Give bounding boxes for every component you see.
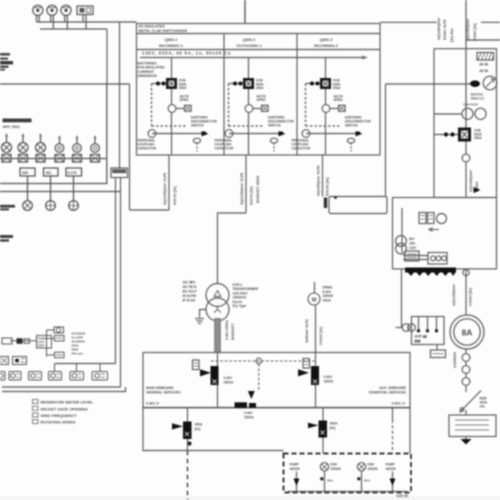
svg-text:SWITCH: SWITCH (268, 123, 281, 127)
breaker QR1 (434, 128, 471, 142)
svg-text:OUTGOING-1: OUTGOING-1 (236, 43, 262, 48)
svg-text:6/10kV XLPE: 6/10kV XLPE (443, 19, 447, 40)
swbd label right (369, 386, 407, 406)
svg-text:ESSENTIAL SERVICES: ESSENTIAL SERVICES (369, 391, 407, 395)
switchboard enclosure (0, 84, 107, 184)
svg-text:200kW: 200kW (331, 467, 341, 471)
left notes label (138, 62, 166, 79)
svg-text:AUX. SWBOARD: AUX. SWBOARD (379, 386, 406, 390)
wire cell3 down (325, 89, 327, 105)
brush symbol (396, 324, 416, 332)
switchgear enclosure (137, 24, 381, 156)
governor unit box (37, 336, 52, 349)
capacitor divider C1 (148, 130, 156, 138)
wire to ngr (465, 410, 467, 415)
svg-text:6/10 kV [3x]: 6/10 kV [3x] (173, 186, 177, 205)
earth switch blade (279, 131, 286, 136)
meter P3 (61, 5, 71, 15)
svg-text:4/6x3: 4/6x3 (323, 298, 331, 302)
svg-text:10s: 10s (480, 405, 486, 409)
svg-text:GENERAL SERVICES: GENERAL SERVICES (146, 391, 181, 395)
wire Q1 to bus (217, 385, 219, 408)
aux box G2 (13, 357, 27, 365)
starter S1 (55, 135, 64, 152)
ct wire 1 (465, 361, 467, 365)
svg-text:3x2500/5A: 3x2500/5A (453, 351, 457, 368)
wire cell3 interlock dashed (306, 84, 340, 127)
svg-text:400kW: 400kW (386, 467, 396, 471)
node cell3 stabs (306, 82, 321, 86)
svg-text:SPRG: SPRG (334, 98, 344, 102)
wire arrester tap (386, 83, 471, 85)
svg-text:QMS-1: QMS-1 (165, 37, 178, 42)
actuator links (2, 338, 37, 344)
breaker 52-2 label (256, 79, 264, 91)
transducer T4 (70, 372, 84, 381)
wire tx tap (218, 213, 247, 284)
wire Q3 dashed down (187, 451, 189, 500)
svg-text:2x(3x185)mm²: 2x(3x185)mm² (452, 283, 456, 306)
arrester label (471, 93, 485, 101)
legend item 3 (33, 413, 78, 418)
interlock node (256, 358, 262, 364)
wire wrap inner (55, 363, 116, 365)
feeder cable 3 (317, 155, 330, 197)
wire bus y22 right (380, 21, 500, 23)
breaker F3 (36, 133, 46, 153)
feeder symbol row (2, 133, 100, 153)
gen cable label (452, 283, 473, 306)
node label left1 (0, 205, 15, 211)
fuse X6 (91, 155, 100, 163)
svg-text:3x(1x300)mm²: 3x(1x300)mm² (469, 169, 473, 192)
wire feeder2 (245, 155, 247, 213)
earth switch wire (306, 133, 356, 135)
svg-text:88 88: 88 88 (480, 69, 489, 73)
svg-text:0.6/1kV [3x]: 0.6/1kV [3x] (319, 327, 323, 345)
wire feeder1 (168, 155, 170, 210)
fuse X3 (36, 155, 45, 163)
wire cell1 interlock dashed (152, 84, 186, 127)
svg-text:10kA cl.2: 10kA cl.2 (471, 96, 485, 100)
wire long vertical C (120, 178, 122, 388)
svg-text:25kA: 25kA (474, 136, 482, 140)
SECTION: motor (305, 84, 387, 366)
breaker 52-3 (320, 78, 331, 89)
device box 52G1 (193, 360, 200, 370)
svg-text:380: 380 (22, 171, 28, 175)
cell 2 circuit (215, 58, 295, 156)
motor label (323, 286, 334, 303)
wire pt drop (401, 269, 403, 328)
wire ess left drop (143, 408, 284, 451)
wire Q2 to bus (315, 385, 317, 408)
coupling capacitor label (138, 139, 157, 151)
svg-text:8A: 8A (462, 328, 473, 338)
wire Q4 down (322, 438, 324, 454)
surge arrester SA1 (470, 76, 497, 90)
wire long vertical A (119, 22, 121, 168)
interlock coil K2 (245, 105, 268, 113)
outgoing box B2 (44, 168, 59, 176)
interlock coil K3 (322, 105, 345, 113)
svg-text:88 88: 88 88 (480, 63, 489, 67)
cubicle box lower (393, 198, 497, 269)
wire meter box stem (83, 15, 86, 30)
wire wrap outer (2, 386, 121, 388)
svg-text:MAIN SWBOARD: MAIN SWBOARD (146, 386, 174, 390)
svg-text:METAL CLAD SWITCHGEAR: METAL CLAD SWITCHGEAR (139, 29, 188, 33)
wire gen down (465, 349, 467, 354)
breaker 52-1 (166, 78, 177, 89)
motor stub (314, 282, 316, 293)
wire gen link (465, 269, 467, 315)
wire meter P2 stem (51, 15, 54, 29)
svg-text:75K: 75K (191, 294, 198, 298)
riser cable label (466, 18, 477, 41)
svg-text:M: M (312, 297, 317, 303)
incoming cable label (437, 17, 454, 42)
svg-text:13kV, 630A, 40 kA, 1s, 50x25 C: 13kV, 630A, 40 kA, 1s, 50x25 Cu (142, 51, 231, 56)
voltage transformer VT1 (462, 103, 486, 120)
svg-text:6/10kV [3x]: 6/10kV [3x] (473, 23, 477, 41)
svg-text:0.4kV 2500A: 0.4kV 2500A (225, 320, 229, 340)
wire LL feeder top (187, 408, 189, 422)
svg-text:ROTATING SPEED: ROTATING SPEED (41, 420, 76, 425)
svg-text:3x(1x150)mm² XLPE: 3x(1x150)mm² XLPE (240, 172, 244, 205)
svg-text:BUSDUCT 1600A: BUSDUCT 1600A (256, 175, 260, 203)
aux relay box R2 (428, 213, 435, 224)
breaker Q4 outgoing (308, 421, 327, 438)
fuse X5 (73, 155, 82, 163)
SECTION: top buses (37, 0, 500, 128)
aux box small (405, 251, 419, 261)
breaker Q3 outgoing (172, 422, 192, 440)
earthing disconnector label (191, 116, 217, 128)
node edge label top (0, 53, 13, 71)
wire meter P1 stem (37, 15, 40, 22)
exciter terminal box (431, 345, 446, 358)
svg-text:GRID FREQUENCY: GRID FREQUENCY (41, 413, 78, 418)
surge counter (270, 138, 277, 151)
svg-text:INCOMING-2: INCOMING-2 (314, 43, 339, 48)
wire motor down (315, 305, 317, 366)
drawout teeth bar (405, 268, 456, 277)
fuse X2 (19, 155, 28, 163)
svg-text:CLF: CLF (191, 290, 197, 294)
fuse X1 (2, 155, 11, 163)
svg-text:C76: C76 (191, 285, 197, 289)
ngr label (480, 397, 488, 409)
svg-text:CAPACITOR: CAPACITOR (138, 146, 157, 150)
breaker Q2 incomer (298, 366, 319, 385)
svg-text:SWITCH: SWITCH (345, 123, 358, 127)
ground electrode (461, 437, 472, 445)
switchgear title (139, 25, 188, 33)
wire mcc bus (288, 491, 407, 493)
surge counter (193, 138, 200, 151)
avr text blob (415, 335, 427, 343)
wire gov ladder (47, 330, 55, 357)
earthing disconnector label (345, 116, 371, 128)
SECTION: left switchboard boxA (0, 53, 130, 242)
breaker Q1 incomer (200, 366, 219, 385)
svg-text:3x(1x95)mm² XLPE: 3x(1x95)mm² XLPE (317, 165, 321, 196)
breaker 52-2 (243, 78, 254, 89)
cell 3 circuit (292, 58, 372, 156)
busduct label (225, 320, 235, 340)
coupling capacitor label (215, 139, 234, 151)
legend item 4 (33, 420, 76, 425)
svg-text:30m: 30m (364, 479, 370, 483)
busduct secondary (215, 319, 221, 353)
cable label feeder3 (317, 165, 330, 196)
main lv bus (143, 407, 410, 409)
bus tie label (244, 411, 254, 419)
transducer T1 (9, 372, 21, 381)
interlock dashed loop (211, 361, 315, 391)
arrow left (429, 228, 440, 232)
wire corner drop (129, 84, 131, 210)
bus tie breaker QT (235, 402, 257, 408)
svg-text:INCOMING-1: INCOMING-1 (159, 43, 184, 48)
svg-text:RESERVOIR WATER LEVEL: RESERVOIR WATER LEVEL (41, 400, 94, 405)
load circle L3 (69, 201, 79, 211)
mcc feeder 3 (357, 463, 378, 492)
earth switch blade (202, 131, 209, 136)
wire cell1 stem (171, 58, 173, 79)
cell divider 1 (223, 34, 225, 156)
ct wire 2 (465, 373, 467, 377)
wire cell1 down (171, 89, 173, 105)
switchboard title (3, 119, 32, 123)
svg-text:3x95mm² XLPE: 3x95mm² XLPE (305, 318, 309, 343)
earth switch wire (229, 133, 279, 135)
coil label (334, 94, 344, 102)
starter S3 (91, 135, 100, 152)
wire interlock drop (258, 364, 260, 391)
svg-text:30m: 30m (327, 479, 333, 483)
fuse row (0, 155, 106, 163)
meter P1 (33, 5, 43, 15)
transducer T3 (49, 372, 62, 381)
cable label feeder2 (240, 172, 260, 205)
surge counter (347, 138, 354, 151)
coupling capacitor label (292, 139, 311, 151)
wire lower bus (0, 191, 121, 193)
svg-text:IP0: IP0 (191, 281, 196, 285)
transducer T0 (0, 372, 5, 381)
SECTION: legend (33, 400, 94, 425)
breaker Q3 label (195, 423, 204, 431)
wire aux feeder stub (392, 408, 394, 454)
13kV bus (140, 56, 368, 60)
wire cell2 stem (248, 58, 250, 79)
wire drop D1 (27, 176, 29, 201)
svg-text:[3x]: [3x] (330, 426, 336, 430)
motor M1 (308, 293, 320, 305)
wire boxA top ext (107, 83, 130, 85)
header underline (137, 49, 381, 51)
svg-text:2500A: 2500A (224, 380, 234, 384)
SECTION: right column (386, 17, 497, 445)
wire cell3 stem (325, 58, 327, 79)
wire cell2 main down (248, 112, 250, 155)
svg-text:3x(1x150)mm² XLPE: 3x(1x150)mm² XLPE (163, 172, 167, 205)
svg-text:BUSDUCT: BUSDUCT (231, 322, 235, 340)
meter circle MR (437, 214, 447, 224)
riser arrow (474, 187, 481, 193)
legend item 1 (33, 400, 94, 405)
pothead small box (324, 196, 387, 214)
svg-text:▮▮▮: ▮▮▮ (415, 339, 421, 343)
node cell1 stabs (152, 82, 167, 86)
wire riser to right (385, 84, 387, 197)
svg-text:AN: AN (191, 299, 196, 303)
junction box J1 (111, 168, 128, 178)
wire LR feeder top (322, 408, 324, 421)
cell header QMS-2 (236, 37, 262, 48)
secondary links (403, 256, 428, 260)
breaker Q4 label (330, 422, 339, 430)
coil label (180, 94, 190, 102)
mcc feeder 4 (386, 463, 396, 492)
wire vt tap (434, 113, 461, 115)
svg-text:WICKET GATE OPENING: WICKET GATE OPENING (41, 406, 88, 411)
wire drop D3 (73, 176, 75, 201)
ct label (453, 351, 457, 368)
governor data label (72, 331, 86, 355)
svg-text:SWITCH: SWITCH (191, 123, 204, 127)
svg-text:IP 00: IP 00 (183, 299, 191, 303)
svg-text:200kW: 200kW (368, 467, 378, 471)
link box dot (334, 196, 337, 199)
svg-text:381: 381 (46, 171, 52, 175)
transducer row (0, 372, 108, 381)
inner panel edge (401, 208, 403, 253)
interlock coil K1 (168, 105, 191, 113)
meter box M1 (77, 6, 93, 15)
earthing disconnector label (268, 116, 294, 128)
wire feeder3 (322, 155, 324, 197)
breaker F2 (18, 133, 28, 153)
svg-text:3x(1x300)mm²: 3x(1x300)mm² (437, 17, 441, 40)
gen link node (463, 269, 469, 275)
transducer T5 (92, 372, 108, 381)
load circle L2 (46, 201, 56, 211)
breaker 52-1 label (179, 79, 187, 91)
coil label (257, 94, 267, 102)
svg-text:QMS-3: QMS-3 (320, 37, 333, 42)
aux relay box R1 (419, 213, 426, 224)
wire bus y22 left (37, 21, 137, 23)
svg-text:25kA: 25kA (256, 86, 264, 90)
transformer note block (183, 281, 198, 303)
wire QR1 down (465, 142, 467, 155)
lv bus wire (0, 158, 106, 160)
ct ring 3 (462, 378, 470, 386)
transformer DTR-1 (206, 284, 229, 322)
transformer spec label (233, 283, 259, 308)
cell 1 circuit (138, 58, 218, 156)
wire busduct to Q1 (217, 353, 219, 367)
earthing switch blade (460, 391, 482, 413)
pt pair PT2 (396, 236, 407, 254)
svg-text:6kV: 6kV (409, 237, 416, 241)
wire drop D2 (50, 176, 52, 201)
wire feeder jog (130, 209, 170, 211)
wire ct down (465, 385, 467, 392)
breaker QR1 label (474, 129, 482, 141)
svg-text:1600A: 1600A (324, 379, 334, 383)
link box (329, 197, 387, 214)
sensor box S1 (55, 336, 65, 342)
motor cable label (305, 318, 323, 345)
link box entry bar (324, 198, 327, 209)
main switchboard enclosure (143, 353, 410, 408)
wire T3 stem (54, 364, 56, 372)
node Q3 junction (187, 439, 191, 451)
sensor box S2 (55, 352, 65, 358)
wire wrap outer2 (2, 387, 126, 392)
SECTION: bottom box (284, 454, 412, 498)
wire right feeder top (465, 0, 467, 128)
cable label feeder1 (163, 172, 177, 205)
svg-text:100/: 100/ (409, 242, 415, 246)
mcc feeder 2 (320, 463, 341, 492)
svg-text:CAPACITOR: CAPACITOR (292, 146, 311, 150)
starter S2 (73, 135, 82, 152)
SECTION: governor (0, 327, 108, 380)
load circle L1 (23, 201, 33, 211)
breaker F1 (2, 133, 12, 153)
wire T5 stem (99, 364, 101, 372)
transducer T2 (29, 372, 42, 381)
legend item 2 (33, 406, 88, 411)
svg-text:SPRG: SPRG (257, 98, 267, 102)
wire long vertical B (115, 178, 117, 364)
ct ring 2 (462, 366, 470, 374)
ct ring 1 (462, 354, 470, 362)
wire cell2 interlock dashed (229, 84, 263, 127)
wire ess right drop (409, 408, 411, 454)
feeder cable 1 (163, 155, 177, 210)
svg-text:HV INSULATED: HV INSULATED (139, 25, 166, 29)
svg-text:0.6/1kV [6x]: 0.6/1kV [6x] (469, 288, 473, 306)
meter P2 (47, 5, 57, 15)
svg-text:CAPACITOR: CAPACITOR (215, 146, 234, 150)
wire cell3 main down (325, 112, 327, 155)
wire meterbus drop (106, 29, 108, 84)
svg-text:SPRG: SPRG (180, 98, 190, 102)
svg-text:0.4kV, 3~: 0.4kV, 3~ (392, 402, 406, 406)
svg-text:8,379: 8,379 (68, 171, 77, 175)
svg-text:DIMENSION: DIMENSION (138, 74, 158, 78)
svg-text:0.4kV, 3~: 0.4kV, 3~ (146, 402, 160, 406)
winding stroke 2 (426, 317, 429, 332)
SECTION: switchgear (137, 24, 381, 214)
wire cell1 main down (171, 112, 173, 155)
wire T4 stem (76, 364, 78, 372)
winding stroke 1 (417, 317, 420, 332)
svg-text:400kW: 400kW (290, 467, 300, 471)
interlock coil KR1 (462, 154, 470, 162)
mcc enclosure dashed (284, 454, 412, 493)
isolating link (477, 53, 494, 61)
svg-text:UNIT: UNIT (38, 344, 45, 348)
capacitor divider C3 (302, 130, 310, 138)
cell header QMS-3 (314, 37, 339, 48)
